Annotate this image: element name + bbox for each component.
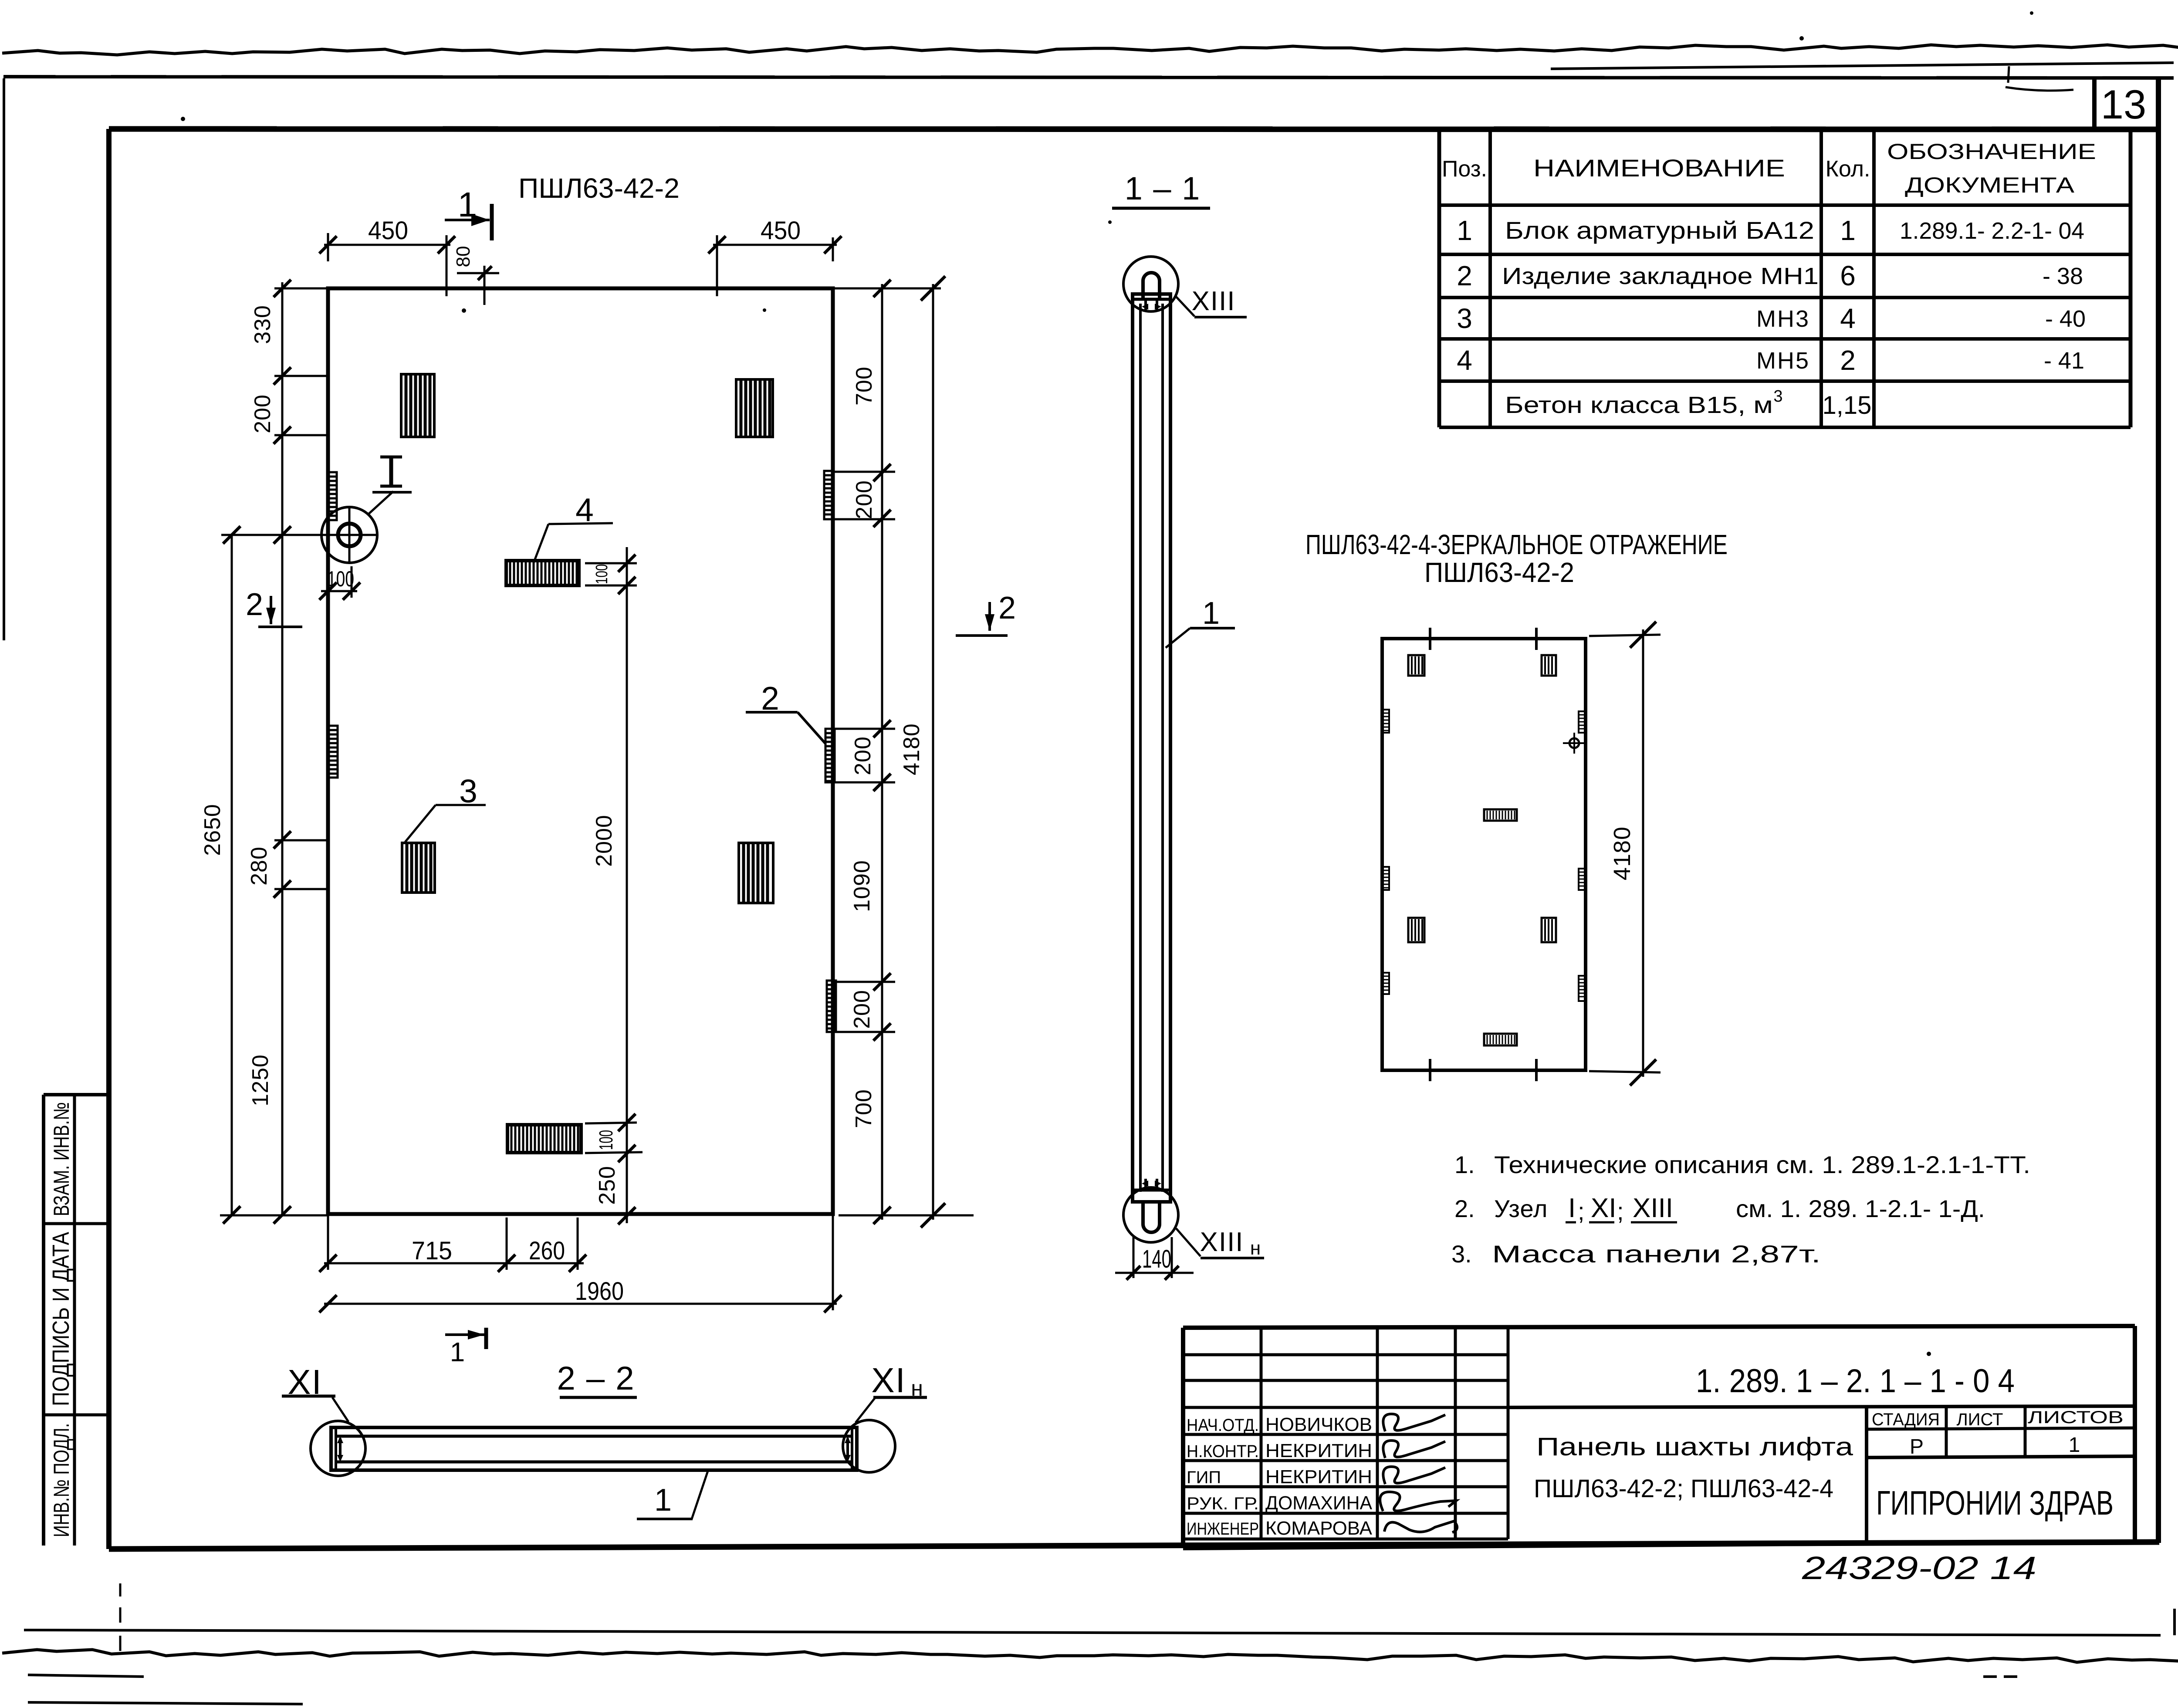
svg-text:ИНВ.№ ПОДЛ.: ИНВ.№ ПОДЛ.	[49, 1423, 74, 1537]
svg-text:НОВИЧКОВ: НОВИЧКОВ	[1265, 1414, 1372, 1435]
svg-text:200: 200	[852, 480, 877, 519]
svg-text:- 40: - 40	[2045, 306, 2086, 332]
svg-text:100: 100	[327, 567, 354, 591]
svg-text:н: н	[1250, 1238, 1261, 1259]
svg-text:1: 1	[450, 1337, 465, 1367]
svg-text:4: 4	[575, 491, 594, 528]
svg-text:260: 260	[529, 1237, 565, 1265]
svg-text:;: ;	[1617, 1197, 1624, 1225]
svg-text:ГИП: ГИП	[1187, 1468, 1221, 1487]
svg-text:3: 3	[459, 773, 477, 809]
svg-text:Изделие закладное МН1: Изделие закладное МН1	[1502, 263, 1819, 289]
svg-text:450: 450	[368, 216, 408, 245]
svg-text:2: 2	[1840, 345, 1856, 376]
svg-text:1250: 1250	[248, 1054, 273, 1106]
svg-text:XIII: XIII	[1633, 1193, 1673, 1223]
svg-text:700: 700	[851, 1089, 876, 1128]
svg-text:700: 700	[852, 366, 877, 406]
svg-text:ПШЛ63-42-2; ПШЛ63-42-4: ПШЛ63-42-2; ПШЛ63-42-4	[1534, 1475, 1833, 1503]
svg-text:РУК. ГР.: РУК. ГР.	[1187, 1494, 1259, 1513]
svg-text:80: 80	[453, 246, 474, 267]
svg-text:НЕКРИТИН: НЕКРИТИН	[1265, 1440, 1372, 1461]
svg-text:НАЧ.ОТД.: НАЧ.ОТД.	[1187, 1416, 1259, 1435]
svg-text:100: 100	[593, 564, 611, 584]
svg-text:2650: 2650	[200, 804, 225, 856]
svg-text:2: 2	[1457, 260, 1472, 291]
svg-text:2: 2	[998, 591, 1016, 626]
svg-text:I: I	[1568, 1193, 1576, 1223]
svg-text:Масса панели 2,87т.: Масса панели 2,87т.	[1492, 1240, 1821, 1268]
svg-text:200: 200	[850, 736, 876, 775]
svg-text:Р: Р	[1910, 1435, 1924, 1458]
svg-text:13: 13	[2101, 81, 2147, 127]
svg-text:3: 3	[1773, 387, 1782, 406]
svg-text:2.: 2.	[1454, 1195, 1475, 1222]
svg-text:1: 1	[1840, 215, 1856, 246]
svg-text:140: 140	[1142, 1245, 1171, 1273]
svg-text:Кол.: Кол.	[1826, 156, 1870, 182]
svg-text:- 38: - 38	[2043, 263, 2083, 289]
svg-text:6: 6	[1840, 260, 1856, 291]
svg-text:450: 450	[761, 216, 801, 245]
svg-text:1 – 1: 1 – 1	[1125, 170, 1201, 206]
svg-text:330: 330	[250, 305, 275, 344]
svg-text:ОБОЗНАЧЕНИЕ: ОБОЗНАЧЕНИЕ	[1887, 139, 2096, 164]
svg-text:ДОКУМЕНТА: ДОКУМЕНТА	[1905, 173, 2075, 197]
svg-text:1090: 1090	[849, 860, 875, 912]
svg-text:Блок арматурный БА12: Блок арматурный БА12	[1505, 216, 1814, 244]
svg-text:250: 250	[595, 1166, 620, 1205]
svg-text:Узел: Узел	[1494, 1195, 1548, 1222]
svg-text:Панель шахты лифта: Панель шахты лифта	[1536, 1433, 1853, 1461]
svg-text:КОМАРОВА: КОМАРОВА	[1265, 1518, 1373, 1539]
svg-text:24329-02 14: 24329-02 14	[1802, 1550, 2036, 1586]
svg-text:4: 4	[1457, 345, 1472, 376]
svg-text:МН5: МН5	[1756, 348, 1810, 374]
svg-text:100: 100	[595, 1130, 617, 1150]
svg-text:ЛИСТОВ: ЛИСТОВ	[2028, 1408, 2124, 1427]
svg-text:2 – 2: 2 – 2	[557, 1360, 635, 1397]
svg-text:1,15: 1,15	[1823, 391, 1872, 419]
svg-text:4180: 4180	[899, 723, 924, 775]
svg-text:МН3: МН3	[1756, 306, 1810, 332]
svg-text:4: 4	[1840, 303, 1856, 334]
svg-text:1.: 1.	[1454, 1151, 1475, 1178]
svg-text:3: 3	[1457, 303, 1472, 334]
svg-text:1960: 1960	[575, 1277, 624, 1306]
svg-text:ГИПРОНИИ ЗДРАВ: ГИПРОНИИ ЗДРАВ	[1876, 1484, 2114, 1522]
svg-text:XI: XI	[1591, 1193, 1617, 1223]
svg-text:ЛИСТ: ЛИСТ	[1957, 1410, 2003, 1429]
svg-text:4180: 4180	[1609, 826, 1635, 880]
svg-text:715: 715	[412, 1237, 452, 1265]
svg-text:ПШЛ63-42-2: ПШЛ63-42-2	[1424, 557, 1574, 588]
svg-text:см. 1. 289. 1-2.1- 1-Д.: см. 1. 289. 1-2.1- 1-Д.	[1736, 1195, 1985, 1222]
svg-text:1: 1	[1457, 215, 1472, 246]
svg-text:Бетон класса В15, м: Бетон класса В15, м	[1505, 392, 1773, 418]
svg-text:ДОМАХИНА: ДОМАХИНА	[1265, 1492, 1373, 1514]
svg-text:2: 2	[761, 680, 779, 717]
svg-text:;: ;	[1578, 1197, 1585, 1225]
svg-text:ВЗАМ. ИНВ.№: ВЗАМ. ИНВ.№	[49, 1102, 74, 1216]
svg-text:1: 1	[458, 185, 477, 224]
svg-text:НАИМЕНОВАНИЕ: НАИМЕНОВАНИЕ	[1533, 154, 1785, 182]
svg-text:1.289.1- 2.2-1- 04: 1.289.1- 2.2-1- 04	[1900, 218, 2084, 244]
svg-text:280: 280	[247, 846, 272, 886]
svg-text:Н.КОНТР.: Н.КОНТР.	[1187, 1442, 1259, 1461]
svg-text:1: 1	[1202, 596, 1220, 631]
svg-text:1: 1	[2069, 1434, 2080, 1457]
svg-text:Технические описания см. 1. 28: Технические описания см. 1. 289.1-2.1-1-…	[1494, 1151, 2030, 1178]
svg-text:2: 2	[246, 587, 263, 622]
svg-text:- 41: - 41	[2044, 348, 2084, 374]
svg-text:ПШЛ63-42-4-ЗЕРКАЛЬНОЕ ОТРАЖЕНИ: ПШЛ63-42-4-ЗЕРКАЛЬНОЕ ОТРАЖЕНИЕ	[1305, 529, 1728, 560]
svg-text:ПШЛ63-42-2: ПШЛ63-42-2	[518, 172, 680, 204]
svg-text:ИНЖЕНЕР: ИНЖЕНЕР	[1187, 1519, 1259, 1539]
svg-text:Поз.: Поз.	[1442, 156, 1487, 182]
svg-text:XI: XI	[871, 1361, 906, 1400]
svg-text:ПОДПИСЬ И ДАТА: ПОДПИСЬ И ДАТА	[48, 1232, 74, 1406]
svg-text:НЕКРИТИН: НЕКРИТИН	[1265, 1466, 1372, 1488]
svg-text:3.: 3.	[1451, 1240, 1472, 1268]
svg-text:XIII: XIII	[1191, 286, 1235, 316]
svg-text:2000: 2000	[592, 815, 617, 867]
svg-text:1. 289. 1 – 2. 1 – 1 - 0 4: 1. 289. 1 – 2. 1 – 1 - 0 4	[1696, 1363, 2015, 1400]
svg-text:1: 1	[654, 1483, 672, 1518]
svg-text:XIII: XIII	[1200, 1227, 1244, 1257]
svg-text:200: 200	[250, 394, 275, 433]
svg-text:200: 200	[849, 990, 875, 1029]
svg-text:СТАДИЯ: СТАДИЯ	[1872, 1410, 1940, 1429]
